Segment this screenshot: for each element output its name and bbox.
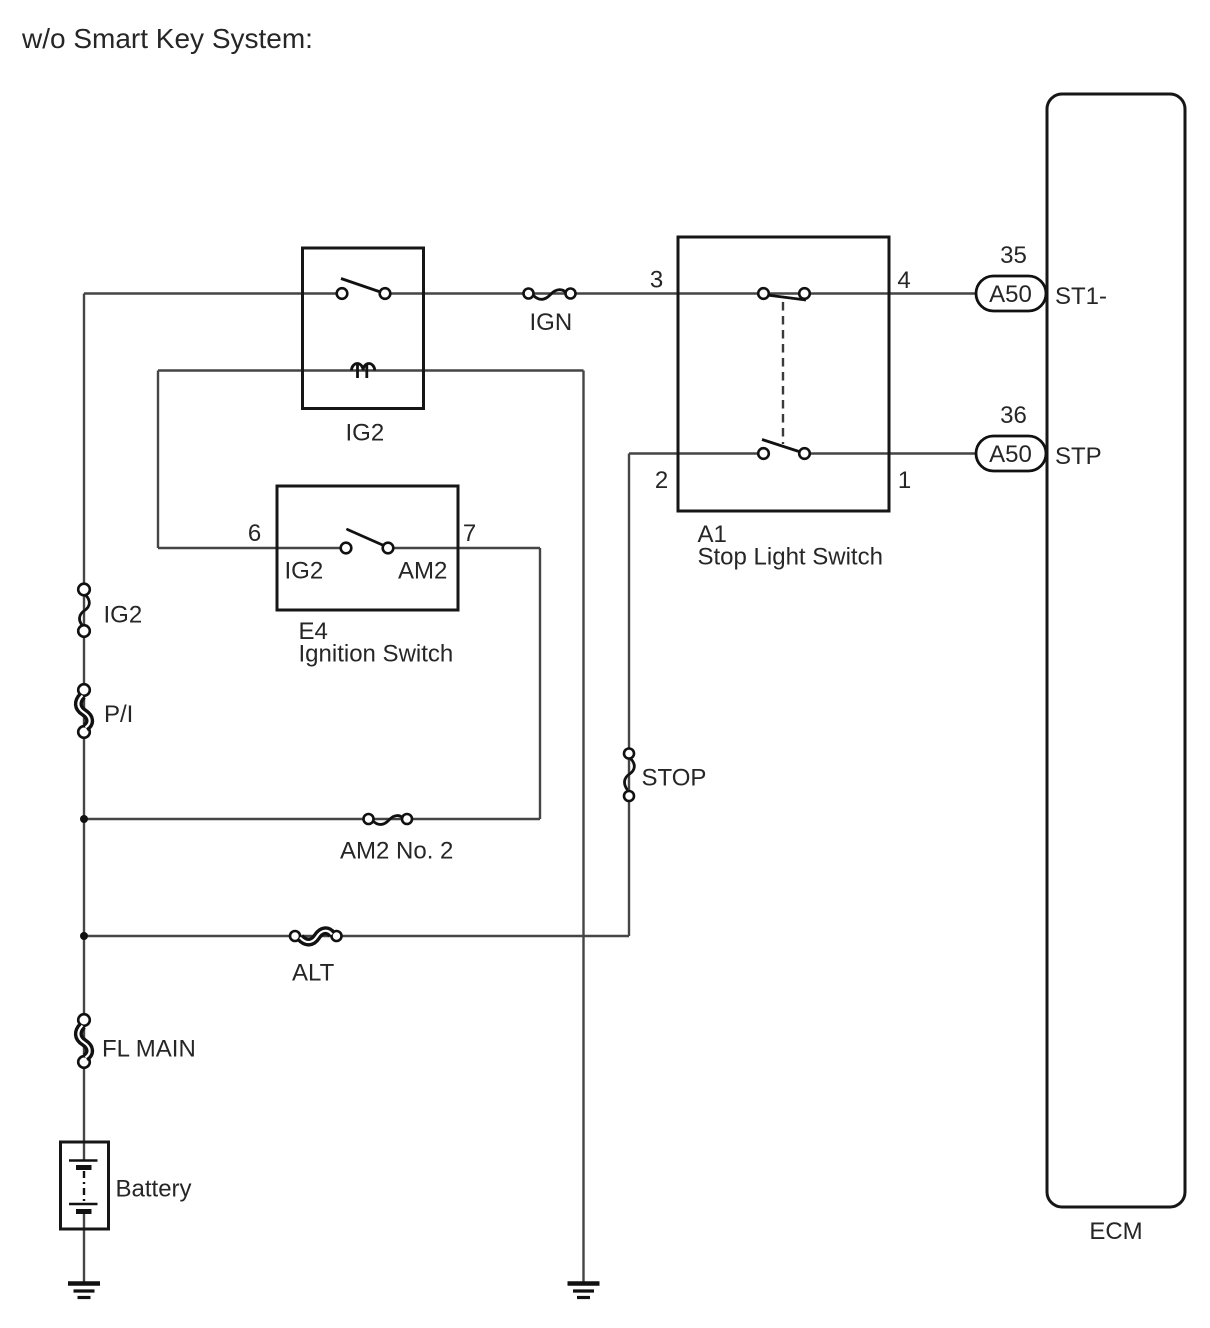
svg-text:IGN: IGN [530, 309, 573, 336]
svg-text:2: 2 [655, 467, 668, 494]
svg-text:IG2: IG2 [104, 602, 143, 629]
svg-text:A50: A50 [989, 441, 1032, 468]
svg-text:ST1-: ST1- [1055, 283, 1107, 310]
battery plate long bottom [69, 1203, 98, 1206]
relay IG2 box [303, 248, 424, 409]
ECM box [1047, 94, 1185, 1207]
wire: vertical x=583.5 from coil row down to ground [582, 371, 584, 1283]
switch A1 box [678, 237, 889, 511]
wire: left vertical riser x=84 [83, 294, 85, 1161]
wire: A1 pin2 row y=453.5 [629, 452, 764, 454]
svg-text:Ignition Switch: Ignition Switch [299, 641, 454, 668]
fuse AM2 No. 2 [364, 814, 374, 824]
svg-text:IG2: IG2 [285, 558, 324, 585]
wire: A1 pin1 row y=453.5 to A50 oval [805, 452, 978, 454]
svg-text:STP: STP [1055, 443, 1102, 470]
relay IG2 switch blade [341, 279, 379, 292]
fuse IG2 (left riser) [78, 584, 90, 596]
battery plate long top [69, 1159, 98, 1162]
svg-text:P/I: P/I [104, 701, 133, 728]
wire: main row y=293.5 from relay contact through IGN fuse to A50 oval [385, 292, 977, 294]
svg-text:35: 35 [1000, 242, 1027, 269]
A1 top switch blade [767, 295, 806, 300]
wire: IG2 relay coil row y=370.5 [158, 369, 584, 371]
svg-text:FL MAIN: FL MAIN [102, 1036, 196, 1063]
svg-text:ALT: ALT [292, 960, 335, 987]
svg-text:AM2: AM2 [398, 558, 447, 585]
ground (ECM branch) [568, 1281, 600, 1285]
wire: AM2 No.2 row y=819 [84, 818, 540, 820]
svg-text:4: 4 [897, 267, 910, 294]
svg-text:ECM: ECM [1089, 1218, 1142, 1245]
relay IG2 switch contacts [337, 288, 348, 299]
fuse STOP [624, 749, 634, 759]
svg-text:A50: A50 [989, 281, 1032, 308]
wire: main row y=293.5 from left riser to IG2 relay contact [84, 292, 342, 294]
wire: battery to ground [83, 1212, 85, 1282]
fusible link P/I [78, 684, 90, 696]
A1 top switch contacts [758, 288, 769, 299]
fusible link FL MAIN [78, 1014, 90, 1026]
battery plate short top [76, 1165, 92, 1170]
E4 switch blade [348, 530, 387, 547]
wire: STOP branch vertical x=629 [628, 454, 630, 937]
A1 bottom switch contacts [758, 448, 769, 459]
junction at AM2 row [80, 815, 88, 823]
fuse IGN [524, 289, 534, 299]
ground (battery) [68, 1281, 100, 1285]
svg-text:IG2: IG2 [346, 420, 385, 447]
wire: E4 pin 7 row y=548 [388, 547, 540, 549]
svg-text:1: 1 [898, 467, 911, 494]
junction at ALT row [80, 932, 88, 940]
switch E4 box [277, 486, 458, 610]
svg-text:36: 36 [1000, 402, 1027, 429]
battery box [61, 1142, 109, 1229]
svg-text:7: 7 [463, 520, 476, 547]
svg-text:Stop Light Switch: Stop Light Switch [698, 544, 883, 571]
svg-text:3: 3 [650, 267, 663, 294]
battery plate short bottom [76, 1209, 92, 1214]
A1 linkage dashed line [782, 302, 784, 444]
svg-text:w/o Smart Key System:: w/o Smart Key System: [21, 23, 313, 54]
wire: vertical x=540 from pin 7 row down to AM2 row [539, 548, 541, 819]
wire: vertical x=158 from coil row down to E4 pin 6 row [157, 371, 159, 549]
wire: E4 pin 6 row y=548 [158, 547, 346, 549]
svg-text:6: 6 [248, 520, 261, 547]
relay IG2 coil [352, 364, 375, 371]
battery centre dash-dot [83, 1171, 85, 1203]
A1 bottom switch blade [762, 440, 802, 453]
svg-text:AM2 No. 2: AM2 No. 2 [340, 838, 453, 865]
wire: ALT row y=936 [84, 935, 629, 937]
svg-text:STOP: STOP [642, 765, 707, 792]
svg-text:Battery: Battery [116, 1176, 192, 1203]
E4 switch contacts [341, 543, 352, 554]
fusible link ALT [290, 931, 300, 941]
